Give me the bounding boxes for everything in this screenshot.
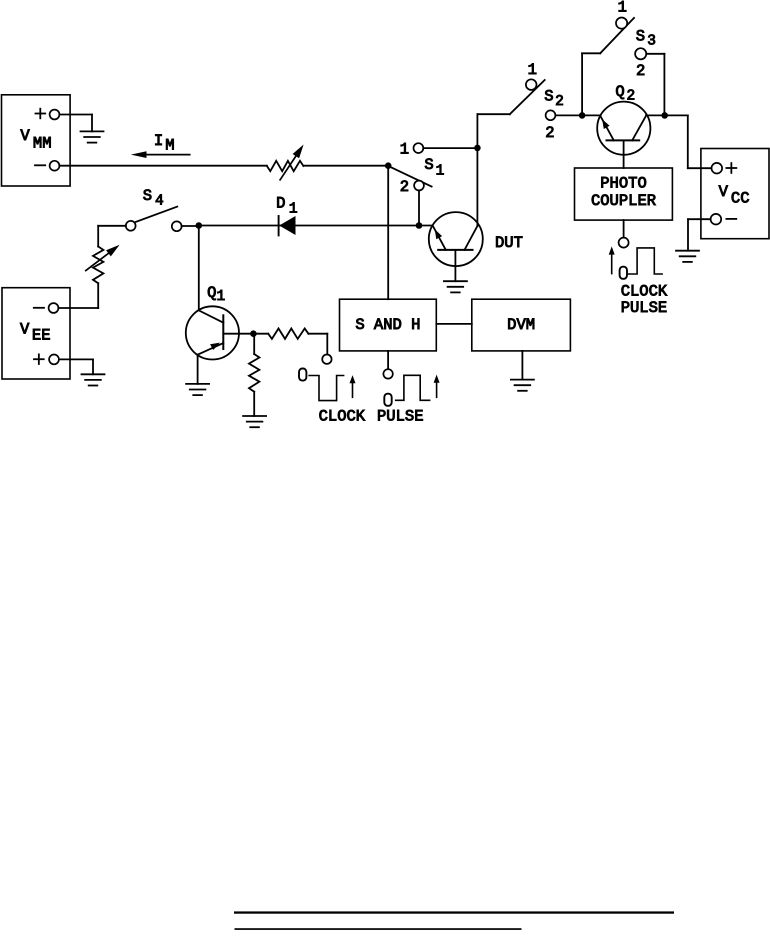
svg-text:1: 1	[216, 289, 225, 305]
svg-text:PULSE: PULSE	[377, 408, 424, 426]
svg-text:3: 3	[647, 33, 656, 49]
svg-text:V: V	[20, 127, 30, 145]
svg-text:EE: EE	[32, 326, 51, 344]
svg-text:M: M	[165, 136, 174, 154]
svg-text:S: S	[636, 27, 645, 45]
svg-text:1: 1	[618, 0, 627, 17]
svg-text:V: V	[20, 320, 30, 338]
svg-text:DVM: DVM	[507, 316, 535, 334]
svg-text:4: 4	[155, 193, 164, 209]
svg-text:1: 1	[436, 164, 445, 180]
svg-text:2: 2	[545, 124, 554, 142]
svg-text:2: 2	[400, 178, 409, 196]
svg-text:2: 2	[555, 94, 564, 110]
svg-text:MM: MM	[33, 134, 52, 152]
svg-text:S: S	[544, 88, 553, 106]
svg-text:S: S	[424, 156, 433, 174]
svg-text:2: 2	[627, 89, 636, 105]
svg-text:DUT: DUT	[495, 234, 523, 252]
svg-text:COUPLER: COUPLER	[591, 192, 656, 210]
svg-text:CC: CC	[731, 190, 750, 208]
svg-text:CLOCK: CLOCK	[319, 408, 366, 426]
svg-text:Q: Q	[207, 284, 216, 302]
svg-text:1: 1	[289, 202, 298, 218]
svg-text:PHOTO: PHOTO	[600, 174, 647, 192]
svg-text:D: D	[276, 195, 285, 213]
svg-text:1: 1	[400, 140, 409, 158]
svg-text:I: I	[154, 132, 163, 150]
svg-text:Q: Q	[615, 83, 624, 101]
svg-text:CLOCK: CLOCK	[621, 283, 668, 301]
svg-text:1: 1	[528, 61, 537, 79]
svg-text:S: S	[143, 187, 152, 205]
svg-text:2: 2	[636, 62, 645, 80]
svg-text:S AND H: S AND H	[355, 316, 420, 334]
svg-text:V: V	[719, 183, 729, 201]
svg-text:PULSE: PULSE	[621, 299, 668, 317]
